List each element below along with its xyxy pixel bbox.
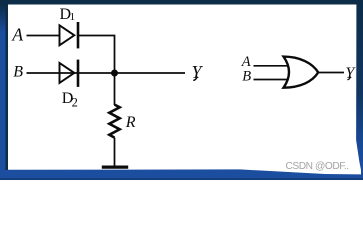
svg-text:A: A: [11, 24, 23, 44]
svg-text:B: B: [242, 69, 251, 85]
svg-text:CSDN @ODF..: CSDN @ODF..: [286, 161, 349, 172]
svg-text:1: 1: [70, 11, 76, 23]
svg-text:R: R: [125, 114, 136, 131]
svg-text:2: 2: [72, 95, 78, 109]
svg-text:B: B: [13, 63, 23, 80]
svg-text:A: A: [241, 54, 251, 70]
